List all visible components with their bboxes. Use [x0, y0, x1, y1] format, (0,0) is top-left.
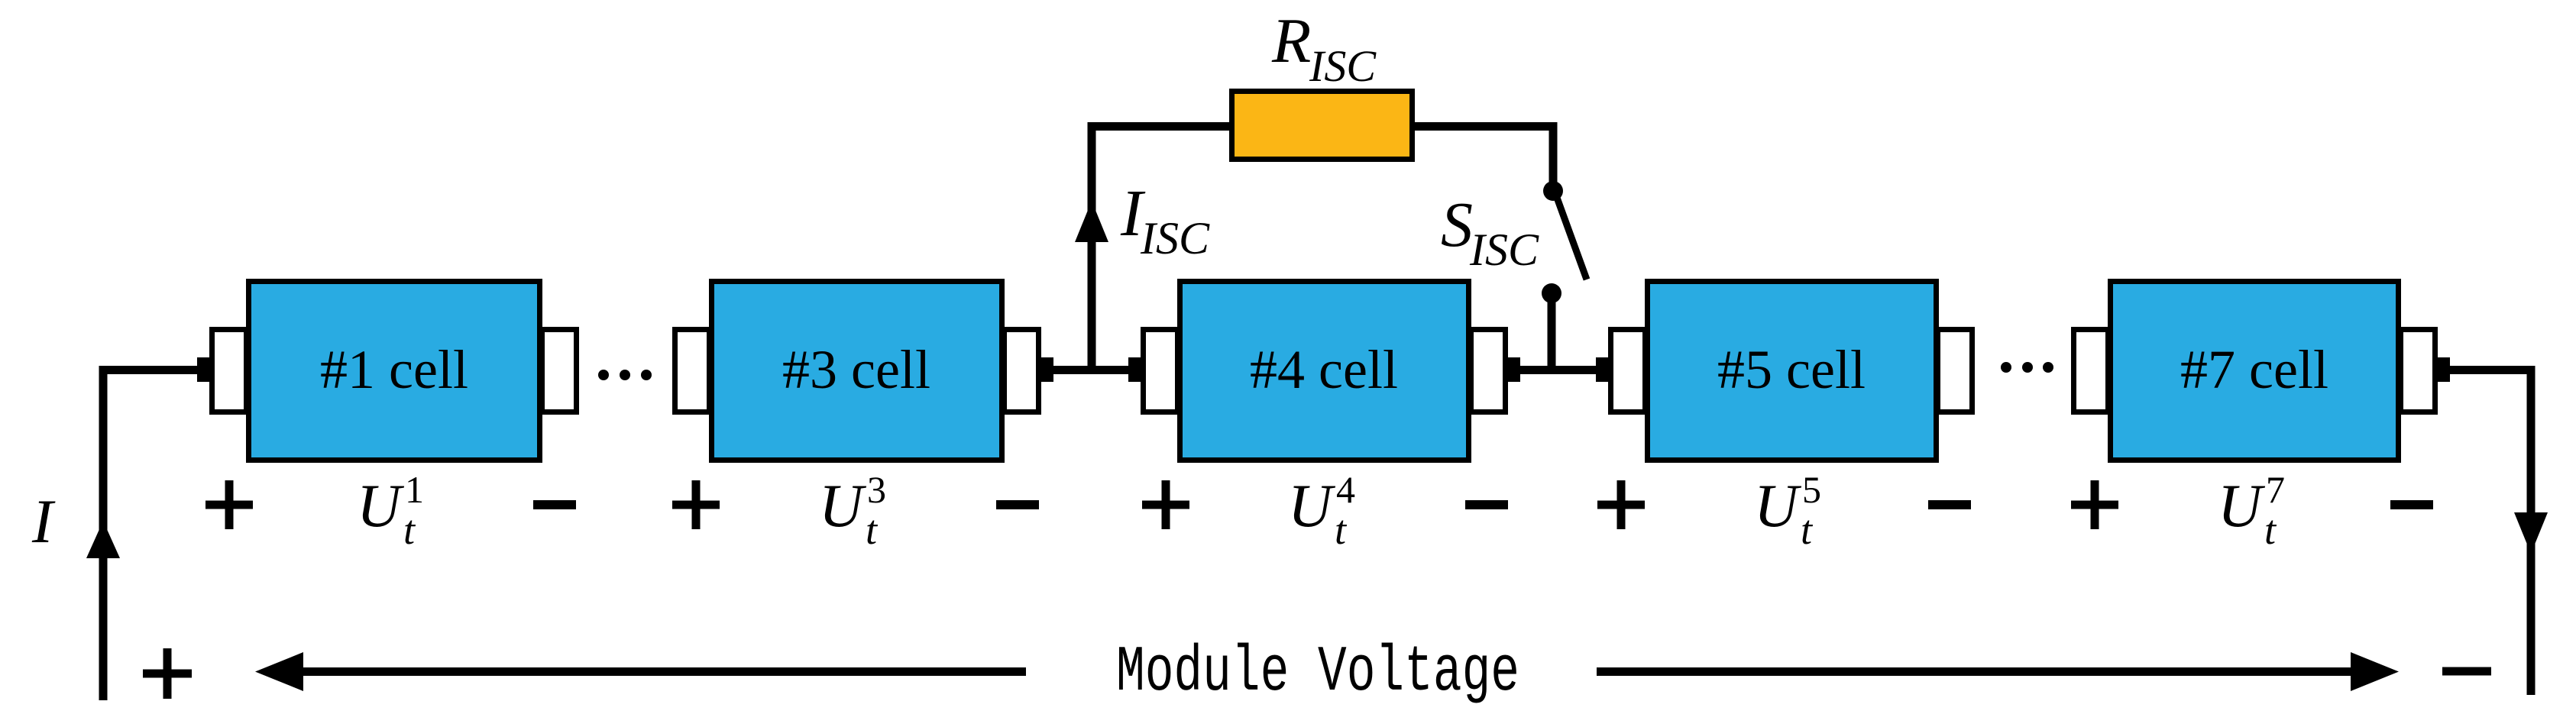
svg-text:t: t — [1335, 507, 1348, 553]
svg-text:ISC: ISC — [1140, 213, 1210, 263]
svg-text:ISC: ISC — [1309, 41, 1377, 91]
cell #4 right tab — [1471, 330, 1506, 412]
label + of U7 — [2071, 480, 2118, 529]
svg-text:t: t — [866, 507, 879, 553]
node nub at #4 cell + terminal — [1128, 357, 1144, 382]
cell #5 body — [1648, 282, 1937, 460]
cell #5 left tab — [1611, 330, 1646, 412]
arrow current I pointing up on left lead — [86, 521, 120, 558]
svg-text:U: U — [819, 473, 867, 540]
svg-text:t: t — [2264, 507, 2277, 553]
label - module terminal — [2442, 667, 2491, 676]
label + of U4 — [1142, 480, 1189, 529]
cell #3 left tab — [675, 330, 710, 412]
svg-text:U: U — [1754, 473, 1802, 540]
svg-text:1: 1 — [405, 468, 424, 511]
label + of U3 — [672, 480, 720, 529]
svg-text:5: 5 — [1802, 468, 1821, 511]
svg-text:4: 4 — [1336, 468, 1355, 511]
wire from switch lower contact to main rail — [1548, 293, 1556, 374]
switch S_ISC lower contact dot — [1542, 283, 1561, 303]
svg-text:t: t — [1801, 507, 1814, 553]
svg-text:U: U — [2218, 473, 2266, 540]
switch S_ISC blade — [1556, 195, 1587, 279]
svg-text:U: U — [1288, 473, 1336, 540]
node nub at #1 cell + terminal — [197, 357, 212, 382]
cell #1 right tab — [542, 330, 577, 412]
resistor R_ISC — [1232, 92, 1413, 160]
label - of U7 — [2390, 500, 2433, 509]
wire between #4 cell and #5 cell — [1519, 366, 1598, 374]
wire between #3 cell and #4 cell — [1053, 366, 1144, 374]
dots omitted cell #6 — [2001, 362, 2011, 373]
label - of U3 — [996, 500, 1039, 509]
svg-text:#3 cell: #3 cell — [782, 339, 930, 400]
svg-text:R: R — [1271, 5, 1311, 76]
cell #7 right tab — [2401, 330, 2435, 412]
label - of U4 — [1465, 500, 1508, 509]
label + of U5 — [1597, 480, 1645, 529]
arrow I_ISC pointing up — [1075, 201, 1108, 242]
cell #1 left tab — [212, 330, 247, 412]
svg-text:#4 cell: #4 cell — [1250, 339, 1398, 400]
cell #3 right tab — [1005, 330, 1039, 412]
svg-text:S: S — [1441, 189, 1473, 260]
node nub at #7 cell - terminal — [2435, 357, 2450, 382]
wire left lead from + terminal to #1 cell — [103, 370, 200, 701]
module voltage left arrow — [298, 667, 1026, 676]
cell #4 body — [1180, 282, 1469, 460]
cell #7 body — [2111, 282, 2399, 460]
svg-text:#7 cell: #7 cell — [2180, 339, 2328, 400]
svg-text:#5 cell: #5 cell — [1717, 339, 1866, 400]
node nub at #5 cell + terminal — [1596, 357, 1611, 382]
svg-text:3: 3 — [867, 468, 886, 511]
dots omitted cell #2 — [598, 370, 609, 380]
label + of U1 — [205, 480, 253, 529]
cell #1 body — [249, 282, 540, 460]
cell #4 left tab — [1144, 330, 1178, 412]
label - of U1 — [533, 500, 576, 509]
label + module terminal — [143, 648, 192, 699]
svg-text:Module Voltage: Module Voltage — [1116, 637, 1519, 709]
wire ISC branch left vertical and top to resistor — [1092, 127, 1229, 375]
svg-text:U: U — [357, 473, 405, 540]
svg-text:I: I — [31, 486, 56, 556]
cell #3 body — [712, 282, 1002, 460]
wire right lead from #7 cell to - terminal — [2448, 370, 2531, 696]
svg-text:#1 cell: #1 cell — [320, 339, 468, 400]
cell #7 left tab — [2074, 330, 2108, 412]
wire from resistor to switch top — [1415, 127, 1553, 187]
module voltage right arrow — [1597, 667, 2357, 676]
svg-text:7: 7 — [2266, 468, 2285, 511]
svg-text:ISC: ISC — [1469, 225, 1539, 275]
svg-text:t: t — [403, 507, 416, 553]
node nub at #4 cell - terminal — [1505, 357, 1520, 382]
arrow current pointing down on right lead — [2514, 512, 2548, 554]
label - of U5 — [1928, 500, 1971, 509]
node nub at #3 cell - terminal — [1038, 357, 1053, 382]
switch S_ISC upper contact dot — [1543, 181, 1563, 201]
cell #5 right tab — [1938, 330, 1972, 412]
